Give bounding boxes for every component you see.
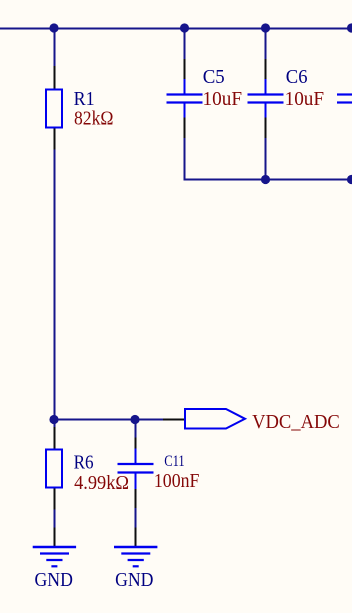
pin 1 of C6	[265, 59, 267, 79]
junction dot at C6 top	[261, 23, 270, 32]
port VDC_ADC	[185, 409, 245, 429]
resistor R6 body	[46, 450, 62, 488]
pin 1 of R6	[54, 427, 56, 449]
wire: from lower node to R6 pin 1	[54, 420, 56, 428]
svg-text:GND: GND	[35, 569, 73, 591]
capacitor C5 body	[167, 79, 203, 118]
ground GND (left) stem	[54, 528, 56, 547]
wire: vertical from C5 pin 2 to bottom cap net	[184, 138, 186, 181]
ground GND (right) bars	[114, 547, 157, 566]
pin of port VDC_ADC	[163, 419, 185, 421]
wire: vertical from top net to C5 pin 1	[184, 29, 186, 60]
capacitor C11 body	[118, 449, 154, 490]
junction dot at R6 top node	[49, 415, 58, 424]
pin 2 of C6	[265, 118, 267, 139]
wire: vertical from R1 pin 2 down to lower node	[54, 150, 56, 420]
capacitor (partial, right edge) plates	[337, 95, 352, 103]
pin 2 of R1	[54, 129, 56, 150]
pin 2 of C11	[135, 489, 137, 508]
svg-text:100nF: 100nF	[154, 470, 200, 492]
pin 1 of C11	[135, 438, 137, 449]
svg-text:C11: C11	[164, 453, 185, 470]
resistor R1 body	[46, 90, 62, 128]
wire: vertical from top net to R1 pin 1	[54, 29, 56, 67]
wire: vertical from C6 pin 2 to bottom cap net	[265, 138, 267, 180]
wire: top horizontal net	[0, 28, 352, 30]
junction dot at C6 bottom	[261, 175, 270, 184]
svg-text:R6: R6	[74, 452, 94, 474]
svg-text:10uF: 10uF	[285, 88, 325, 110]
junction dot at C11 top node	[130, 415, 139, 424]
wire: from lower node to C11 pin 1	[135, 420, 137, 438]
ground GND (right) stem	[135, 528, 137, 547]
svg-text:GND: GND	[115, 569, 153, 591]
pin 2 of C5	[184, 118, 186, 139]
pin 2 of R6	[54, 489, 56, 510]
svg-text:10uF: 10uF	[203, 88, 243, 110]
wire: lower node horizontal	[54, 419, 163, 421]
wire: vertical from top net to C6 pin 1	[265, 29, 267, 60]
junction dot at right edge bottom	[347, 175, 352, 184]
wire: bottom cap net horizontal	[185, 179, 352, 181]
svg-text:82kΩ: 82kΩ	[74, 108, 114, 130]
pin 1 of R1	[54, 66, 56, 89]
svg-text:C5: C5	[203, 66, 225, 88]
svg-text:VDC_ADC: VDC_ADC	[252, 411, 340, 433]
svg-text:4.99kΩ: 4.99kΩ	[74, 472, 129, 494]
capacitor C6 body	[248, 79, 284, 118]
ground GND (left) bars	[33, 547, 76, 566]
junction dot at right edge top	[347, 23, 352, 32]
junction dot at C5 top	[180, 23, 189, 32]
wire: R6 pin 2 to GND stem	[54, 510, 56, 528]
junction dot at R1 top	[49, 23, 58, 32]
pin 1 of C5	[184, 59, 186, 79]
wire: C11 pin 2 to GND stem	[135, 508, 137, 528]
svg-text:C6: C6	[286, 66, 308, 88]
